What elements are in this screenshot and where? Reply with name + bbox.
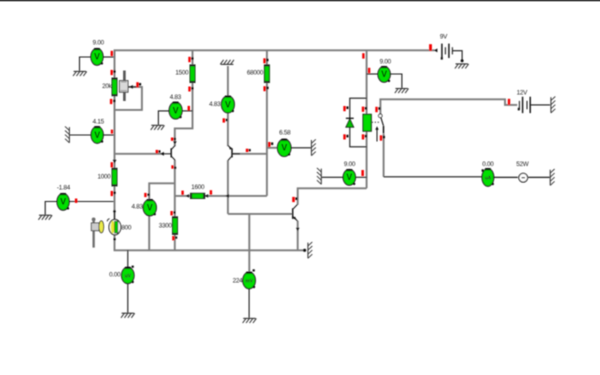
wire Q1 emitter below 3300 [174,234,176,250]
svg-text:mV: mV [245,279,253,285]
voltmeter 4.83 upper with ground above [209,60,234,123]
svg-text:V: V [281,143,287,153]
wire lamp net [384,176,482,178]
resistor R 1500 [175,57,195,92]
wire Q2 emitter down [227,160,229,214]
voltmeter 0.00 uV output with ground [109,250,135,317]
svg-text:V: V [147,203,153,213]
voltmeter 224 mV with ground [233,269,257,323]
svg-text:20k: 20k [102,83,113,90]
svg-text:3300: 3300 [159,223,173,230]
window top edge line [0,0,600,1]
transistor Q1 [156,138,177,170]
wire Q2 collector [227,96,229,146]
wire Q1 base from rail [115,153,164,155]
wire relay contact lead [383,134,385,177]
voltmeter 9.00 left with leads [80,40,115,71]
svg-text:9.00: 9.00 [93,40,105,47]
svg-text:4.83: 4.83 [132,203,144,210]
ammeter 0.00 uA output [482,161,495,187]
wire 12V feed [380,99,517,114]
svg-text:9.00: 9.00 [380,58,392,65]
wire Q3 emitter [297,221,299,251]
wire 1600 net [175,195,267,197]
svg-text:224: 224 [233,278,244,285]
wire 1500 rail [174,50,193,128]
svg-text:9V: 9V [440,34,448,41]
wire bottom rail [114,249,306,251]
voltmeter 9.00 mid with rotated ground [317,161,367,185]
battery 9V [429,34,464,63]
svg-text:68000: 68000 [247,70,264,77]
wire 68000 rail [266,50,268,196]
ground under 4.83 mid [151,125,165,130]
wire Q2 emitter to Q3 base [228,213,292,215]
svg-text:uV: uV [125,274,132,280]
svg-text:9.00: 9.00 [344,161,356,168]
svg-text:12V: 12V [517,89,529,96]
diode D1 [343,98,366,147]
wire mic bottom lead [114,235,116,251]
resistor R 1000 [97,160,117,196]
resistor R 3300 [159,211,178,240]
svg-text:V: V [94,130,100,140]
ground under 9V battery [455,64,469,69]
svg-text:52W: 52W [516,161,529,168]
svg-text:V: V [94,52,100,62]
transistor Q2 [226,145,251,197]
svg-text:1600: 1600 [191,184,205,191]
wire crystal loop [114,87,142,110]
svg-text:V: V [346,172,352,182]
wire left main rail [114,50,116,220]
svg-text:4.15: 4.15 [93,118,105,125]
ground under 9.00 left [73,71,87,76]
resistor R 68000 [247,58,269,91]
wire 224 branch [248,214,250,272]
svg-text:V: V [225,99,231,109]
relay contact switch [372,107,385,142]
wire Q2 base to rail [232,153,267,155]
svg-text:-1.84: -1.84 [57,185,71,192]
relay coil [362,53,372,139]
crystal transducer [119,71,141,102]
svg-text:1500: 1500 [175,70,189,77]
svg-text:V: V [60,197,66,207]
resistor R 20k [102,70,117,104]
svg-text:6.58: 6.58 [279,130,291,137]
svg-text:4.83: 4.83 [170,94,182,101]
microphone MIC 800 [91,210,132,248]
svg-text:V: V [381,69,387,79]
lamp 52W with rotated ground [494,161,555,185]
svg-text:V: V [173,105,179,115]
svg-text:800: 800 [121,224,132,231]
wire Q3 collector [298,188,367,205]
voltmeter 9.00 top right with ground [367,58,409,93]
transistor Q3 [292,197,299,231]
battery 12V with rotated ground [508,89,556,113]
svg-text:0.00: 0.00 [109,272,121,279]
wire 6.58 left [267,147,278,149]
ground left of 4.15 [65,126,69,142]
voltmeter 4.15 with leads [70,118,114,143]
wire Q1 collector [174,128,176,146]
voltmeter 4.83 on emitter stub [132,193,157,216]
svg-text:1000: 1000 [97,173,111,180]
wire 4.83 stub [149,183,175,250]
wire relay coil rail [366,50,368,188]
resistor R 1600 horizontal [181,184,212,198]
wire top supply rail [114,49,435,51]
ground bottom rail right [303,242,312,258]
voltmeter 4.83 mid with leads [158,94,192,125]
voltmeter 6.58 with rotated ground [268,130,316,157]
svg-text:0.00: 0.00 [482,161,494,168]
svg-text:4.83: 4.83 [209,101,221,108]
svg-text:uA: uA [485,176,492,182]
wire Q1 emitter down [174,160,176,217]
voltmeter -1.84 with leads [45,185,113,215]
ground under -1.84 [38,215,52,220]
